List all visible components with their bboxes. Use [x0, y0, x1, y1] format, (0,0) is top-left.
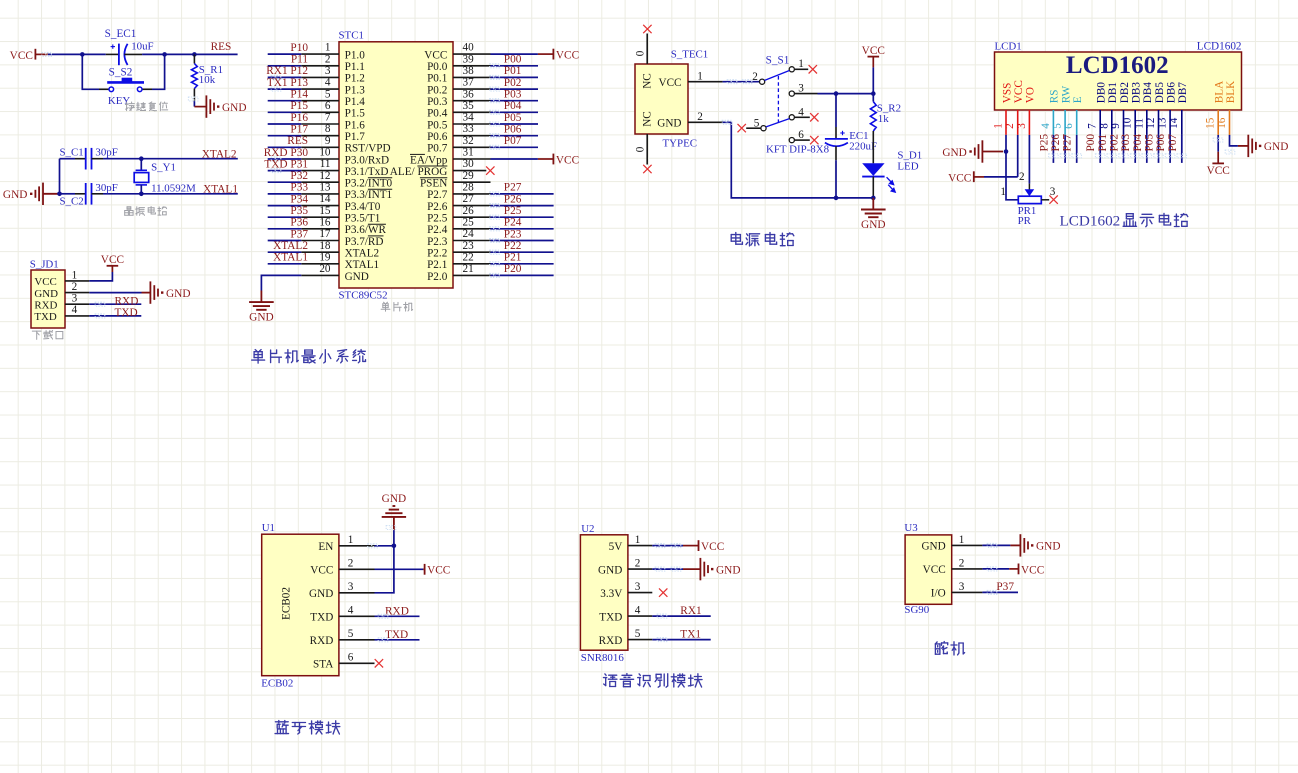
svg-text:SNR8016: SNR8016: [581, 652, 625, 664]
svg-text:P00: P00: [504, 54, 522, 66]
svg-text:12: 12: [319, 170, 330, 182]
svg-text:TXD: TXD: [115, 307, 138, 319]
svg-text:P32: P32: [290, 170, 308, 182]
svg-text:34: 34: [463, 112, 475, 124]
svg-text:ALE/ PROG: ALE/ PROG: [390, 166, 448, 178]
svg-text:XTAL2: XTAL2: [202, 148, 237, 160]
svg-text:PSEN: PSEN: [420, 178, 447, 190]
svg-text:RXD: RXD: [599, 635, 623, 647]
svg-text:8: 8: [325, 123, 331, 135]
svg-text:LCD1602: LCD1602: [1197, 40, 1242, 52]
svg-text:VCC: VCC: [34, 276, 56, 288]
svg-text:EN: EN: [318, 541, 333, 553]
svg-text:6: 6: [1063, 123, 1075, 129]
svg-text:VCC: VCC: [556, 154, 579, 166]
svg-text:P11: P11: [291, 54, 308, 66]
svg-text:P2.6: P2.6: [427, 201, 448, 213]
svg-text:21: 21: [463, 263, 474, 275]
svg-text:P3.0/RxD: P3.0/RxD: [345, 154, 389, 166]
svg-text:P01: P01: [504, 65, 522, 77]
svg-text:P3.2/INT0: P3.2/INT0: [345, 178, 393, 190]
svg-text:5V: 5V: [609, 541, 623, 553]
svg-text:VCC: VCC: [658, 77, 681, 89]
svg-text:P26: P26: [504, 193, 522, 205]
svg-text:P0.2: P0.2: [427, 84, 447, 96]
svg-text:P22: P22: [504, 240, 522, 252]
svg-text:P3.4/T0: P3.4/T0: [345, 201, 381, 213]
svg-text:RXD: RXD: [310, 635, 334, 647]
svg-text:TX1 P13: TX1 P13: [267, 77, 308, 89]
svg-text:P1.1: P1.1: [345, 61, 365, 73]
svg-text:P2.0: P2.0: [427, 271, 448, 283]
svg-text:1k: 1k: [878, 113, 889, 125]
svg-text:RXD: RXD: [115, 295, 139, 307]
svg-text:3: 3: [959, 581, 965, 593]
svg-text:GND: GND: [861, 219, 885, 231]
svg-text:GND: GND: [382, 493, 406, 505]
svg-text:RS: RS: [1049, 90, 1061, 104]
svg-text:TXD: TXD: [310, 612, 333, 624]
svg-text:E: E: [1072, 96, 1084, 103]
svg-text:GND: GND: [921, 541, 945, 553]
svg-text:P0.6: P0.6: [427, 131, 448, 143]
svg-text:GND: GND: [166, 288, 190, 300]
svg-text:10: 10: [319, 147, 331, 159]
svg-text:P04: P04: [1132, 134, 1144, 152]
svg-text:5: 5: [325, 88, 331, 100]
svg-text:P1.7: P1.7: [345, 131, 366, 143]
svg-text:0: 0: [635, 146, 647, 152]
svg-text:P37: P37: [996, 581, 1014, 593]
svg-text:P05: P05: [1144, 134, 1156, 152]
svg-text:P04: P04: [504, 100, 522, 112]
svg-text:GND: GND: [34, 288, 58, 300]
svg-text:1: 1: [1000, 186, 1006, 198]
svg-text:29: 29: [463, 170, 475, 182]
svg-text:P07: P07: [1167, 134, 1179, 152]
svg-text:STA: STA: [313, 659, 333, 671]
svg-text:VCC: VCC: [10, 50, 33, 62]
svg-text:P27: P27: [504, 182, 522, 194]
svg-text:VCC: VCC: [948, 172, 971, 184]
svg-text:VCC: VCC: [1207, 165, 1230, 177]
svg-text:5: 5: [348, 628, 354, 640]
svg-text:P17: P17: [290, 124, 308, 136]
svg-text:2: 2: [1004, 123, 1016, 129]
svg-text:18: 18: [319, 240, 331, 252]
svg-text:2: 2: [72, 281, 78, 293]
svg-text:VCC: VCC: [310, 565, 333, 577]
svg-text:15: 15: [319, 205, 331, 217]
svg-text:VCC: VCC: [1013, 80, 1025, 103]
svg-text:23: 23: [463, 240, 475, 252]
svg-text:P24: P24: [504, 217, 522, 229]
svg-text:P21: P21: [504, 252, 522, 264]
svg-text:PR: PR: [1018, 215, 1032, 227]
svg-text:P1.5: P1.5: [345, 108, 366, 120]
svg-text:S_S2: S_S2: [109, 66, 133, 78]
svg-text:XTAL1: XTAL1: [203, 184, 238, 196]
svg-text:0: 0: [635, 50, 647, 56]
svg-text:P3.3/INT1: P3.3/INT1: [345, 189, 393, 201]
svg-text:35: 35: [463, 100, 475, 112]
svg-text:BLK: BLK: [1225, 81, 1237, 103]
svg-text:19: 19: [319, 251, 331, 263]
svg-text:10uF: 10uF: [131, 40, 153, 52]
svg-text:P2.2: P2.2: [427, 247, 447, 259]
svg-text:VCC: VCC: [1021, 564, 1044, 576]
svg-text:LED: LED: [897, 161, 918, 173]
svg-text:13: 13: [319, 182, 331, 194]
svg-text:KFT DIP-8X8: KFT DIP-8X8: [766, 143, 830, 155]
svg-text:LCD1602: LCD1602: [1066, 52, 1169, 79]
svg-text:3: 3: [325, 65, 331, 77]
svg-text:1: 1: [325, 42, 331, 54]
svg-text:S_TEC1: S_TEC1: [671, 48, 709, 60]
svg-text:DB6: DB6: [1165, 82, 1177, 104]
svg-text:4: 4: [72, 304, 78, 316]
svg-text:4: 4: [348, 605, 354, 617]
svg-text:1: 1: [959, 534, 965, 546]
svg-text:3: 3: [348, 581, 354, 593]
svg-text:39: 39: [463, 53, 475, 65]
svg-text:RX1 P12: RX1 P12: [266, 65, 308, 77]
svg-text:VO: VO: [1025, 87, 1037, 103]
svg-text:22: 22: [463, 251, 474, 263]
svg-text:4: 4: [325, 77, 331, 89]
svg-text:DB2: DB2: [1119, 82, 1131, 103]
svg-text:P34: P34: [290, 193, 308, 205]
svg-text:3: 3: [1050, 186, 1056, 198]
svg-text:P0.0: P0.0: [427, 61, 448, 73]
svg-text:6: 6: [798, 129, 804, 141]
svg-text:2: 2: [697, 111, 703, 123]
svg-text:I/O: I/O: [931, 588, 946, 600]
svg-text:1: 1: [798, 58, 804, 70]
svg-text:VCC: VCC: [101, 254, 124, 266]
svg-text:NC: NC: [642, 111, 654, 127]
svg-text:NC: NC: [642, 73, 654, 89]
svg-text:DB3: DB3: [1131, 82, 1143, 104]
svg-text:P0.4: P0.4: [427, 108, 448, 120]
svg-text:P1.0: P1.0: [345, 49, 366, 61]
svg-text:15: 15: [1205, 117, 1217, 129]
svg-text:P3.5/T1: P3.5/T1: [345, 213, 381, 225]
svg-text:37: 37: [463, 77, 475, 89]
svg-text:P27: P27: [1062, 134, 1074, 152]
svg-text:38: 38: [463, 65, 475, 77]
svg-text:3: 3: [72, 293, 78, 305]
svg-text:GND: GND: [1036, 541, 1060, 553]
svg-text:SG90: SG90: [904, 604, 929, 616]
svg-text:P0.5: P0.5: [427, 119, 448, 131]
svg-text:27: 27: [463, 193, 475, 205]
svg-text:7: 7: [325, 112, 331, 124]
svg-text:3.3V: 3.3V: [600, 588, 622, 600]
svg-text:S_EC1: S_EC1: [105, 28, 137, 40]
svg-text:DB7: DB7: [1177, 82, 1189, 104]
svg-text:RES: RES: [211, 41, 232, 53]
svg-text:GND: GND: [309, 588, 333, 600]
svg-text:TXD: TXD: [599, 611, 622, 623]
svg-text:P1.4: P1.4: [345, 96, 366, 108]
svg-text:P06: P06: [1155, 134, 1167, 152]
svg-text:P05: P05: [504, 112, 522, 124]
svg-text:VCC: VCC: [427, 565, 450, 577]
svg-text:P03: P03: [504, 89, 522, 101]
svg-text:P3.7/RD: P3.7/RD: [345, 236, 384, 248]
svg-text:S_C1: S_C1: [60, 147, 84, 159]
svg-text:2: 2: [635, 558, 641, 570]
svg-text:11: 11: [320, 158, 331, 170]
svg-text:VCC: VCC: [701, 541, 724, 553]
svg-text:P0.1: P0.1: [427, 73, 447, 85]
svg-text:P14: P14: [290, 89, 308, 101]
svg-text:25: 25: [463, 216, 475, 228]
svg-text:8: 8: [1098, 123, 1110, 129]
svg-text:30pF: 30pF: [95, 182, 117, 194]
svg-text:P20: P20: [504, 263, 522, 275]
svg-text:P1.2: P1.2: [345, 73, 365, 85]
svg-text:LCD1602: LCD1602: [1060, 212, 1121, 229]
svg-text:P2.1: P2.1: [427, 259, 447, 271]
svg-text:U3: U3: [904, 522, 918, 534]
svg-text:7: 7: [1087, 123, 1099, 129]
svg-text:P23: P23: [504, 228, 522, 240]
svg-text:3: 3: [635, 581, 641, 593]
svg-text:P16: P16: [290, 112, 308, 124]
svg-text:P25: P25: [504, 205, 522, 217]
svg-text:6: 6: [348, 652, 354, 664]
svg-text:5: 5: [1052, 123, 1064, 129]
svg-text:1: 1: [697, 71, 703, 83]
svg-text:2: 2: [959, 557, 965, 569]
svg-text:10: 10: [1122, 117, 1134, 129]
svg-text:1: 1: [72, 269, 78, 281]
svg-text:P25: P25: [1038, 134, 1050, 152]
svg-text:P37: P37: [290, 228, 308, 240]
svg-text:DB4: DB4: [1142, 82, 1154, 104]
svg-text:TXD: TXD: [385, 629, 408, 641]
svg-text:33: 33: [463, 123, 475, 135]
svg-text:P10: P10: [290, 42, 308, 54]
svg-text:GND: GND: [657, 118, 681, 130]
svg-text:BLA: BLA: [1214, 81, 1226, 103]
svg-text:GND: GND: [345, 271, 369, 283]
svg-text:ECB02: ECB02: [261, 678, 293, 690]
svg-text:14: 14: [319, 193, 331, 205]
svg-text:P26: P26: [1050, 134, 1062, 152]
svg-text:1: 1: [635, 534, 641, 546]
svg-text:GND: GND: [598, 564, 622, 576]
svg-text:11.0592M: 11.0592M: [151, 183, 196, 195]
svg-text:P0.3: P0.3: [427, 96, 448, 108]
svg-text:P06: P06: [504, 124, 522, 136]
svg-text:P02: P02: [504, 77, 522, 89]
svg-text:31: 31: [463, 147, 474, 159]
svg-text:14: 14: [1168, 117, 1180, 129]
svg-text:13: 13: [1157, 117, 1169, 129]
svg-text:STC89C52: STC89C52: [339, 289, 388, 301]
svg-text:XTAL2: XTAL2: [345, 247, 380, 259]
svg-text:P2.7: P2.7: [427, 189, 448, 201]
svg-text:DB0: DB0: [1096, 82, 1108, 104]
svg-text:P3.6/WR: P3.6/WR: [345, 224, 387, 236]
svg-text:1: 1: [993, 123, 1005, 129]
svg-text:VCC: VCC: [556, 50, 579, 62]
svg-text:30: 30: [463, 158, 475, 170]
svg-text:VCC: VCC: [424, 49, 447, 61]
svg-text:P2.3: P2.3: [427, 236, 448, 248]
svg-text:GND: GND: [222, 102, 246, 114]
svg-text:2: 2: [348, 558, 354, 570]
svg-text:VCC: VCC: [923, 564, 946, 576]
svg-text:2: 2: [325, 53, 331, 65]
svg-text:1: 1: [348, 534, 354, 546]
svg-text:11: 11: [1133, 118, 1145, 129]
svg-text:RXD P30: RXD P30: [264, 147, 309, 159]
svg-text:GND: GND: [716, 564, 740, 576]
svg-text:3: 3: [1016, 123, 1028, 129]
svg-text:RST/VPD: RST/VPD: [345, 143, 391, 155]
svg-text:P01: P01: [1097, 134, 1109, 152]
svg-text:RES: RES: [287, 135, 308, 147]
svg-text:P15: P15: [290, 100, 308, 112]
svg-text:9: 9: [1110, 123, 1122, 129]
svg-text:S_JD1: S_JD1: [30, 258, 59, 270]
svg-text:XTAL1: XTAL1: [345, 259, 380, 271]
svg-text:20: 20: [319, 263, 331, 275]
svg-text:DB5: DB5: [1154, 82, 1166, 104]
svg-text:GND: GND: [942, 147, 966, 159]
svg-text:VSS: VSS: [1001, 83, 1013, 104]
svg-text:30pF: 30pF: [95, 147, 117, 159]
svg-text:DB1: DB1: [1107, 82, 1119, 103]
svg-text:TYPEC: TYPEC: [663, 138, 698, 150]
svg-text:36: 36: [463, 88, 475, 100]
svg-text:4: 4: [635, 605, 641, 617]
svg-text:VCC: VCC: [862, 45, 885, 57]
svg-text:S_C2: S_C2: [60, 196, 84, 208]
svg-text:P3.1/TxD: P3.1/TxD: [345, 166, 389, 178]
svg-text:EA/Vpp: EA/Vpp: [410, 154, 448, 166]
svg-text:GND: GND: [249, 312, 273, 324]
svg-text:17: 17: [319, 228, 331, 240]
svg-text:XTAL1: XTAL1: [273, 252, 308, 264]
svg-text:TX1: TX1: [680, 629, 701, 641]
svg-text:32: 32: [463, 135, 474, 147]
svg-text:6: 6: [325, 100, 331, 112]
svg-text:16: 16: [319, 216, 331, 228]
svg-text:STC1: STC1: [339, 30, 364, 42]
svg-text:P03: P03: [1120, 134, 1132, 152]
svg-text:P1.3: P1.3: [345, 84, 366, 96]
svg-text:P02: P02: [1109, 134, 1121, 152]
svg-text:RW: RW: [1060, 85, 1072, 103]
svg-text:P07: P07: [504, 135, 522, 147]
svg-text:TXD: TXD: [34, 311, 57, 323]
svg-text:S_Y1: S_Y1: [151, 162, 176, 174]
svg-text:RXD: RXD: [385, 605, 409, 617]
svg-text:2: 2: [752, 71, 758, 83]
svg-text:4: 4: [1040, 123, 1052, 129]
svg-text:10k: 10k: [199, 74, 216, 86]
svg-text:P2.4: P2.4: [427, 224, 448, 236]
svg-text:P36: P36: [290, 217, 308, 229]
svg-text:28: 28: [463, 182, 475, 194]
svg-text:RXD: RXD: [34, 300, 57, 312]
svg-text:5: 5: [635, 628, 641, 640]
svg-text:26: 26: [463, 205, 475, 217]
svg-text:GND: GND: [1264, 141, 1288, 153]
svg-text:2: 2: [1019, 171, 1025, 183]
svg-text:GND: GND: [3, 189, 27, 201]
svg-text:U1: U1: [262, 522, 275, 534]
svg-text:9: 9: [325, 135, 331, 147]
svg-text:XTAL2: XTAL2: [273, 240, 308, 252]
svg-text:24: 24: [463, 228, 475, 240]
svg-text:ECB02: ECB02: [281, 587, 293, 620]
svg-text:U2: U2: [581, 523, 594, 535]
svg-text:S_S1: S_S1: [766, 54, 790, 66]
svg-text:P0.7: P0.7: [427, 143, 448, 155]
svg-text:RX1: RX1: [680, 605, 701, 617]
svg-text:P00: P00: [1085, 134, 1097, 152]
svg-text:P33: P33: [290, 182, 308, 194]
svg-text:P1.6: P1.6: [345, 119, 366, 131]
svg-text:16: 16: [1216, 117, 1228, 129]
svg-text:P2.5: P2.5: [427, 213, 448, 225]
svg-text:P35: P35: [290, 205, 308, 217]
svg-text:12: 12: [1145, 118, 1157, 129]
svg-text:40: 40: [463, 42, 475, 54]
svg-text:LCD1: LCD1: [995, 40, 1022, 52]
